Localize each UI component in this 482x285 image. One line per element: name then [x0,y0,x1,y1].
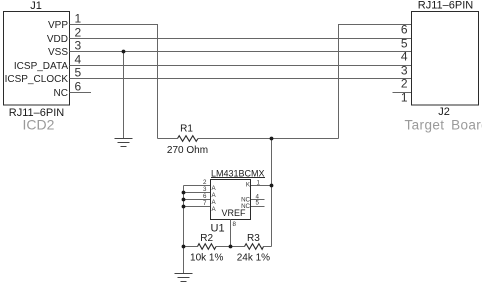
wire VSS J1.3 to J2.4 [70,51,412,53]
svg-text:24k 1%: 24k 1% [237,253,270,264]
underline of LM431BCMX label [211,177,265,179]
svg-text:6: 6 [203,193,207,200]
svg-text:5: 5 [256,200,260,207]
junction dot anode pin3 [182,191,186,195]
svg-text:J1: J1 [30,0,42,12]
svg-text:A: A [212,199,217,206]
wire cathode bus vertical [271,139,273,247]
op-amp U1 box (LM431 shunt reference) [211,180,251,220]
connector J2 box [412,12,479,106]
svg-text:5: 5 [401,37,408,51]
svg-text:J2: J2 [438,106,450,118]
svg-text:2: 2 [75,26,82,40]
wire VSS ground tap [123,52,125,139]
junction dot anode pin6 [182,198,186,202]
svg-text:7: 7 [203,200,207,207]
svg-text:RJ11–6PIN: RJ11–6PIN [418,0,473,12]
svg-text:VSS: VSS [48,47,68,58]
wire U1 pin4 NC stub [251,199,265,201]
wire U1 pin7 anode [184,206,211,208]
wire U1 pin3 anode [184,192,211,194]
junction dot R2-R3 ref node [229,245,233,249]
wire R1 output to J2.6 riser [339,25,412,139]
svg-text:3: 3 [75,39,82,53]
svg-text:2: 2 [203,179,207,186]
wire U1 pin1 cathode stub [251,185,272,187]
svg-text:6: 6 [75,80,82,94]
svg-text:10k 1%: 10k 1% [190,253,223,264]
svg-text:R3: R3 [247,233,260,244]
resistor R1 zigzag [178,136,199,142]
svg-text:ICSP_DATA: ICSP_DATA [14,61,68,72]
junction dot cathode stub [270,184,274,188]
svg-text:ICSP_CLOCK: ICSP_CLOCK [5,74,69,85]
svg-text:6: 6 [401,23,408,37]
junction dot R1 output node [270,137,274,141]
svg-text:A: A [212,206,217,213]
wire J2 pin1 stub [393,92,412,94]
svg-text:270 Ohm: 270 Ohm [167,145,208,156]
svg-text:1: 1 [75,12,82,26]
junction dot VSS ground tap [122,50,126,54]
wire U1 pin2 anode [184,185,211,187]
wire VDD J1.2 to J2.5 [70,38,412,40]
svg-text:ICD2: ICD2 [23,117,55,133]
svg-text:LM431BCMX: LM431BCMX [211,169,265,179]
wire R3 left lead [231,246,245,248]
svg-text:VPP: VPP [48,20,68,31]
svg-text:NC: NC [54,88,68,99]
junction dot anode pin7 [182,205,186,209]
svg-text:3: 3 [203,186,207,193]
connector J1 box [4,12,70,106]
svg-text:3: 3 [401,64,408,78]
wire anode bus vertical [183,186,185,274]
svg-text:A: A [212,185,217,192]
svg-text:5: 5 [75,66,82,80]
wire R2 left lead [184,246,198,248]
wire NC stub J1.6 [70,92,92,94]
wire U1 pin6 anode [184,199,211,201]
wire ICSP_DATA J1.4 to J2.3 [70,65,412,67]
wire R3 right lead [264,246,272,248]
svg-text:4: 4 [401,50,408,64]
ground symbol at anode bus [175,274,193,282]
resistor R3 zigzag [245,244,264,250]
wire R1 right lead [198,138,339,140]
svg-text:R2: R2 [200,233,213,244]
wire R2-R3 middle link [216,246,231,248]
svg-text:2: 2 [401,77,408,91]
wire J1 pin1 VPP to vertical [70,25,158,139]
svg-text:8: 8 [233,221,237,228]
wire U1 pin8 ref down [230,220,232,247]
svg-text:R1: R1 [180,124,193,135]
wire R1 left lead [158,138,178,140]
svg-text:4: 4 [75,53,82,67]
resistor R2 zigzag [198,244,217,250]
wire U1 pin5 NC stub [251,206,265,208]
svg-text:Target Board: Target Board [405,118,482,133]
wire ICSP_CLOCK J1.5 to J2.2 [70,78,412,80]
svg-text:1: 1 [257,179,261,186]
svg-text:VDD: VDD [47,34,68,45]
svg-text:1: 1 [401,91,408,105]
ground symbol at VSS [115,139,133,147]
svg-text:A: A [212,192,217,199]
junction dot R2 anode node [182,245,186,249]
svg-text:NC: NC [241,203,250,210]
